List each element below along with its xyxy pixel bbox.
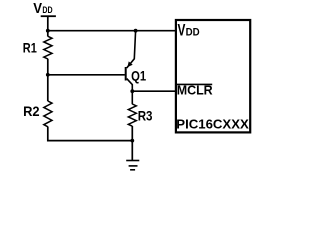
svg-text:V: V	[33, 0, 43, 17]
svg-text:DD: DD	[42, 5, 52, 15]
svg-text:DD: DD	[186, 26, 200, 38]
svg-text:PIC16CXXX: PIC16CXXX	[176, 117, 249, 132]
svg-text:R2: R2	[23, 104, 40, 119]
svg-text:V: V	[178, 20, 186, 39]
svg-text:R1: R1	[23, 40, 37, 55]
svg-text:Q1: Q1	[131, 68, 146, 83]
svg-text:R3: R3	[138, 109, 153, 124]
svg-text:MCLR: MCLR	[177, 83, 214, 98]
